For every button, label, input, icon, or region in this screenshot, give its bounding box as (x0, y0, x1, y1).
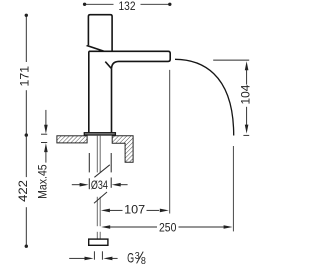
svg-text:107: 107 (124, 205, 145, 217)
faucet handle (88, 15, 112, 51)
svg-text:G: G (127, 250, 134, 266)
svg-text:132: 132 (119, 1, 136, 13)
svg-text:Ø34: Ø34 (91, 178, 108, 192)
dim 132 top (83, 1, 172, 13)
shank edge extension lines (O34) (89, 153, 111, 189)
dim 422 left (18, 135, 30, 248)
dim 107 (101, 205, 169, 217)
base plate (84, 133, 115, 135)
svg-text:Max.45: Max.45 (35, 164, 49, 199)
body right edge (111, 69, 113, 135)
body chamfer edge (105, 62, 111, 69)
svg-text:171: 171 (19, 66, 31, 87)
dim 250 (101, 222, 232, 234)
counter left hatched section (57, 136, 87, 143)
spout underside fillet (112, 61, 119, 68)
dim 171 left (19, 14, 31, 137)
supply pipe (97, 135, 100, 239)
dim Max.45 (35, 110, 49, 199)
pipe break slash lower (94, 192, 107, 203)
counter right hatched L-section (112, 136, 133, 163)
svg-text:8: 8 (141, 256, 146, 267)
dim 104 right (213, 60, 252, 135)
svg-text:250: 250 (159, 222, 176, 234)
water stream curve (175, 59, 234, 135)
body left edge (88, 51, 90, 135)
svg-text:422: 422 (18, 180, 30, 202)
handle lever underside (88, 45, 104, 51)
G3/8 fitting (89, 239, 108, 245)
extension line below spout tip (169, 70, 171, 214)
svg-text:3: 3 (135, 251, 140, 262)
extension line from stream end (232, 146, 234, 231)
dim G 3/8 (69, 250, 146, 267)
svg-text:104: 104 (241, 84, 253, 104)
dim O34 (72, 178, 128, 192)
pipe break slash upper (94, 165, 109, 178)
body top / spout top / tip / spout bottom (89, 51, 170, 61)
